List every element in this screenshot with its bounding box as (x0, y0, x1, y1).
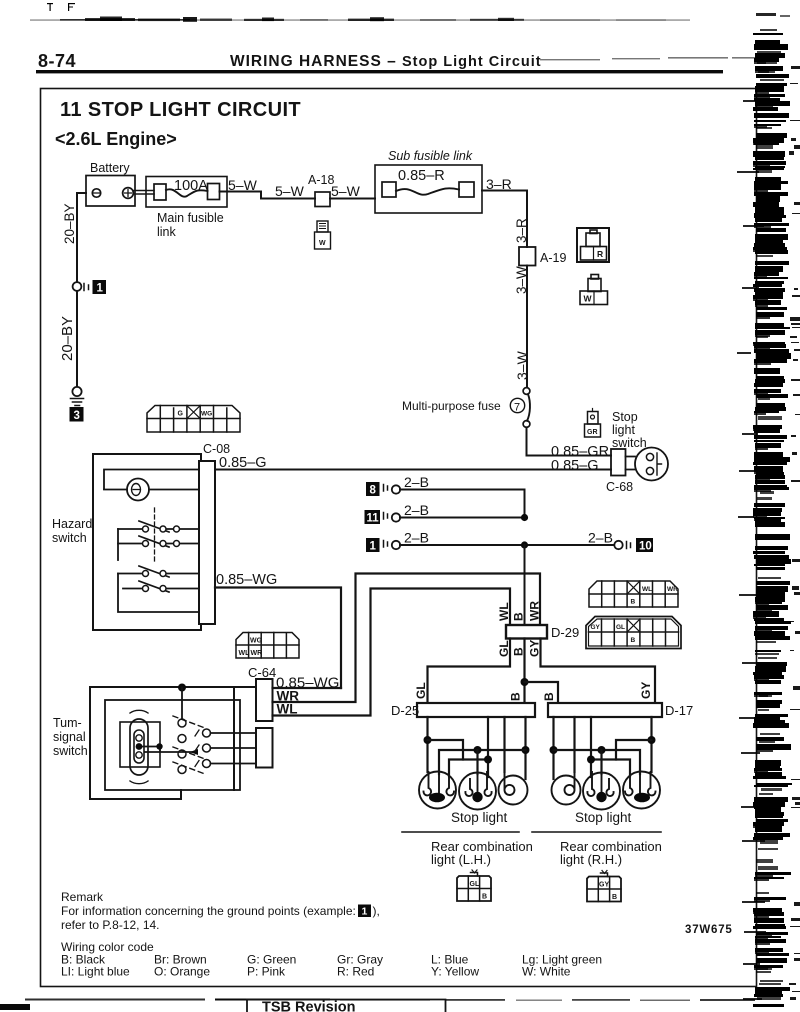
junction dot bus/11 (521, 514, 528, 521)
wire WL C-64 to D-29 (273, 589, 511, 716)
svg-text:20–BY: 20–BY (62, 203, 77, 244)
svg-text:Stop: Stop (612, 410, 638, 424)
svg-text:GY: GY (599, 882, 609, 889)
svg-text:0.85–G: 0.85–G (551, 458, 599, 474)
wire WG row C-64 to riser (273, 687, 342, 689)
hazard internal top wire (104, 470, 199, 490)
ground point circle 3 (72, 387, 81, 396)
wire B D-29 down to junction (523, 639, 525, 704)
hazard switch contact group lower (118, 566, 199, 612)
separator rule R.H. (532, 831, 661, 833)
turn-signal contacts column (178, 719, 186, 774)
ground mark 1 (84, 284, 89, 291)
svg-text:link: link (157, 225, 177, 239)
svg-text:2–B: 2–B (404, 474, 429, 490)
ground mark 1b (384, 541, 388, 548)
connector table C-08 pin view (147, 406, 240, 433)
wire 0.85-G long run from hazard to switch (215, 469, 611, 471)
wire from dot down to contact (181, 688, 183, 720)
svg-text:TSB Revision: TSB Revision (262, 1000, 355, 1012)
svg-text:WR: WR (528, 601, 542, 621)
svg-text:W: W (319, 240, 326, 247)
svg-text:W: W (584, 294, 593, 304)
svg-text:WL: WL (277, 702, 298, 717)
ground box 11 (365, 510, 381, 524)
svg-text:Battery: Battery (90, 161, 130, 175)
junction dot pin2'/row (587, 756, 595, 764)
separator rule L.H. (402, 831, 519, 833)
svg-text:B: B (482, 894, 487, 901)
svg-text:G: G (178, 411, 184, 418)
wire fuse down to stop light switch (527, 427, 612, 455)
svg-text:11: 11 (367, 513, 380, 525)
wire from main fusible link to A-18 (220, 192, 316, 199)
svg-text:WL: WL (239, 650, 251, 657)
wire A-19 down to fuse (526, 266, 528, 388)
wire ground 1 through bus to ground 10 (400, 544, 614, 546)
svg-text:For information concerning the: For information concerning the ground po… (61, 904, 356, 918)
wire D-17 pin1 GY down to bulb A' right lead (650, 717, 652, 772)
wire GY D-29 to D-17 (541, 639, 656, 704)
arrow on wiper (190, 749, 198, 755)
svg-text:0.85–R: 0.85–R (398, 168, 445, 184)
svg-text:C-08: C-08 (203, 442, 230, 456)
hazard switch outer box (93, 454, 201, 630)
header underline rule (36, 70, 723, 73)
wire lamp to strip (104, 489, 199, 491)
svg-text:Stop light: Stop light (575, 810, 632, 825)
ground point circle 10 (614, 541, 622, 549)
TSB revision box (247, 1000, 446, 1012)
svg-text:B: B (512, 612, 526, 621)
wire row to bulb A' left lead (591, 760, 630, 777)
scan noise right band (737, 13, 800, 1007)
svg-text:W: White: W: White (522, 965, 571, 979)
stop light switch body (626, 448, 669, 481)
turn-signal lever pill (130, 719, 148, 775)
svg-text:B: B (631, 637, 636, 644)
multi-purpose fuse symbol (523, 388, 530, 428)
svg-text:R: R (597, 249, 603, 259)
connector A-19 (519, 247, 536, 266)
bulb B' (R.H. middle) (583, 772, 620, 810)
circled 7 (510, 398, 524, 412)
hazard switch connector strip C-08 (199, 461, 215, 624)
svg-text:B: B (612, 894, 617, 901)
svg-text:light (L.H.): light (L.H.) (431, 852, 491, 867)
faint scan dashes right of header (540, 57, 758, 60)
wire 0.85-WG hazard to C-64 riser (215, 588, 341, 689)
svg-text:C-68: C-68 (606, 480, 633, 494)
turn-signal switch connector C-64 rect (256, 679, 273, 721)
svg-text:GY: GY (591, 624, 601, 631)
bulb B (L.H. middle) (459, 772, 496, 810)
svg-text:37W675: 37W675 (685, 924, 733, 936)
wire branch dot to row (428, 740, 464, 760)
wire branch dot to row (right) (616, 740, 652, 760)
bottom scan noise dashes (0, 999, 755, 1011)
svg-text:GY: GY (639, 682, 653, 699)
connector D-29 (506, 625, 547, 639)
svg-text:WG: WG (250, 638, 263, 645)
junction dot left lamp feed (424, 736, 432, 744)
wire ground 11 to bus (400, 517, 525, 519)
svg-text:2–B: 2–B (588, 530, 613, 546)
connector table rear light L.H. (457, 870, 491, 901)
connector table C-64 pin view (236, 633, 299, 659)
wire D-25 pin3 down to bulb C lead (503, 717, 505, 772)
svg-text:B: B (509, 692, 523, 701)
svg-text:0.85–WG: 0.85–WG (216, 572, 277, 588)
wires pins to connector (211, 733, 257, 764)
ground box 1b (366, 538, 380, 552)
wire D-25 pin1 GL down to bulb A left lead (426, 717, 428, 772)
svg-text:Multi-purpose fuse: Multi-purpose fuse (402, 399, 501, 413)
svg-text:<2.6L Engine>: <2.6L Engine> (55, 129, 177, 149)
wire row to bulb A center lead (439, 750, 526, 774)
wire D-17 pin4 down (552, 717, 554, 779)
junction dot pin4/row (522, 746, 530, 754)
connector icon R (top right) (577, 228, 609, 262)
ground box 1 (93, 280, 107, 294)
junction dot pin4'/row (550, 746, 558, 754)
sub fusible link pins and wavy element (382, 182, 474, 197)
svg-text:WL: WL (642, 586, 652, 593)
junction dot B branch (521, 678, 529, 686)
connector icon below A-18 (W) (315, 221, 331, 249)
ground mark 11 (384, 513, 388, 520)
svg-text:2–B: 2–B (404, 530, 429, 546)
wire D-25 pin2 down to bulb B right lead (487, 717, 489, 777)
connector table rear light R.H. (587, 871, 621, 902)
connector icon GR (above switch) (585, 409, 601, 438)
svg-text:WR: WR (667, 586, 678, 593)
stop light switch connector rect (611, 449, 626, 476)
svg-text:1: 1 (370, 541, 377, 553)
ground box 3 (70, 407, 84, 422)
wire D-25 pin4 down (524, 717, 526, 779)
svg-text:LI: Light blue: LI: Light blue (61, 965, 130, 979)
svg-text:WL: WL (497, 602, 511, 621)
svg-text:R: Red: R: Red (337, 965, 374, 979)
svg-text:O: Orange: O: Orange (154, 965, 210, 979)
svg-text:Main fusible: Main fusible (157, 211, 224, 225)
svg-text:11 STOP LIGHT CIRCUIT: 11 STOP LIGHT CIRCUIT (60, 99, 301, 121)
ground point circle 1 (73, 282, 82, 291)
junction dot bus/1 (521, 541, 528, 548)
wire mid contact feed (143, 747, 193, 753)
svg-text:Stop light: Stop light (451, 810, 508, 825)
svg-text:2–B: 2–B (404, 502, 429, 518)
junction dot on turn-signal box top (178, 684, 186, 692)
svg-text:3–W: 3–W (514, 350, 530, 380)
turn-signal dashed wipers (173, 716, 205, 774)
svg-text:Remark: Remark (61, 890, 104, 904)
svg-text:C-64: C-64 (248, 665, 276, 680)
wire 20-BY lower run (76, 291, 78, 387)
svg-text:8-74: 8-74 (38, 51, 76, 71)
ground symbol 3 (71, 399, 84, 406)
svg-text:WG: WG (201, 411, 212, 418)
svg-text:WR: WR (251, 650, 263, 657)
wire ground 8 to bus (400, 490, 525, 518)
svg-text:switch: switch (612, 436, 647, 450)
connector table D-25/D-17 pin view (GY/GL/B) (586, 617, 681, 649)
svg-text:10: 10 (639, 541, 652, 553)
wire D-17 pin3 down to bulb C' lead (573, 717, 575, 772)
junction dot bulb B center feed (474, 746, 482, 754)
svg-text:Sub fusible link: Sub fusible link (388, 149, 473, 163)
svg-text:Hazard: Hazard (52, 517, 92, 531)
bulb A' (R.H. outer) (623, 772, 660, 809)
connector A-18 (315, 192, 330, 207)
svg-text:switch: switch (52, 531, 87, 545)
bulb C (L.H. inner, single filament) (499, 772, 528, 805)
turn-signal inner box (105, 700, 240, 790)
wire GL D-29 to D-25 (428, 639, 511, 704)
pin circles with tails (203, 729, 211, 768)
svg-text:refer to P.8-12, 14.: refer to P.8-12, 14. (61, 918, 160, 932)
svg-text:B: B (542, 692, 556, 701)
wire WR C-64 to D-29 (273, 574, 541, 703)
svg-text:P: Pink: P: Pink (247, 965, 286, 979)
svg-text:switch: switch (53, 744, 88, 758)
main fusible link box (146, 177, 227, 208)
main diagram border box (41, 89, 757, 987)
wire bulb B' center lead (600, 750, 602, 774)
wire sub fusible link to vertical run (482, 191, 527, 248)
junction dot bulb B' center feed (598, 746, 606, 754)
wire battery positive to main fusible link (double lead) (134, 191, 155, 195)
battery B1 (86, 176, 135, 207)
turn-signal switch outer box (90, 687, 256, 799)
svg-text:8: 8 (370, 485, 377, 497)
junction dot pin2/row (484, 756, 492, 764)
svg-text:5–W: 5–W (331, 183, 361, 199)
junction dot right lamp feed (648, 736, 656, 744)
connector table D-29 pin view (WL/WR/B) (589, 581, 678, 607)
turn-signal second connector rect (256, 728, 273, 768)
svg-text:A-19: A-19 (540, 251, 566, 265)
turn-signal small frame (120, 722, 160, 767)
bulb C' (R.H. inner) (552, 772, 581, 805)
scan noise top edge (30, 3, 690, 22)
connector icon W (below) (580, 275, 608, 305)
wire A-18 to sub fusible link (330, 198, 375, 200)
svg-text:GL: GL (616, 624, 625, 631)
wire D-17 pin2 down to bulb B' left lead (590, 717, 592, 777)
svg-text:7: 7 (514, 402, 520, 414)
svg-text:D-29: D-29 (551, 625, 579, 640)
svg-text:3–R: 3–R (514, 218, 529, 243)
svg-text:100A: 100A (174, 178, 208, 194)
sub fusible link box (375, 165, 482, 213)
svg-text:),: ), (373, 904, 380, 918)
svg-text:signal: signal (53, 730, 86, 744)
svg-text:D-25: D-25 (391, 703, 419, 718)
svg-text:1: 1 (97, 283, 104, 295)
svg-text:light (R.H.): light (R.H.) (560, 852, 622, 867)
ground box example 1 (358, 905, 371, 918)
svg-text:GL: GL (414, 682, 428, 699)
ground mark 8 (384, 485, 388, 492)
svg-text:3: 3 (74, 410, 80, 422)
wire bulb B center lead (476, 750, 478, 774)
bulb A (L.H. outer) (419, 772, 456, 809)
svg-text:B: B (631, 599, 636, 606)
svg-text:5–W: 5–W (275, 183, 305, 199)
svg-text:20–BY: 20–BY (59, 316, 76, 361)
connector bar D-25 (417, 703, 535, 717)
hazard switch contact group upper (118, 508, 199, 562)
svg-text:WIRING HARNESS – Stop Light: WIRING HARNESS – Stop Light Circuit (230, 53, 542, 70)
hazard pilot lamp (127, 479, 149, 501)
wire B branch to D-17 (525, 682, 559, 703)
svg-text:0.85–G: 0.85–G (219, 455, 267, 471)
svg-text:1: 1 (362, 906, 368, 918)
main fusible link pin squares and wavy element (154, 184, 220, 201)
wire row to bulb A right lead (449, 760, 488, 777)
wire row to bulb A' center lead (554, 750, 641, 774)
svg-text:light: light (612, 423, 635, 437)
wire battery negative to ground run (77, 193, 86, 282)
svg-text:GL: GL (470, 881, 480, 888)
ground mark 10 (627, 542, 631, 549)
svg-text:D-17: D-17 (665, 703, 693, 718)
ground box 8 (366, 482, 380, 496)
svg-text:GR: GR (587, 429, 598, 436)
svg-text:Y: Yellow: Y: Yellow (431, 965, 479, 979)
connector bar D-17 (548, 703, 662, 717)
ground box 10 (636, 538, 653, 552)
wire B bus down to D-29 (524, 545, 526, 625)
svg-text:Tum-: Tum- (53, 716, 82, 730)
